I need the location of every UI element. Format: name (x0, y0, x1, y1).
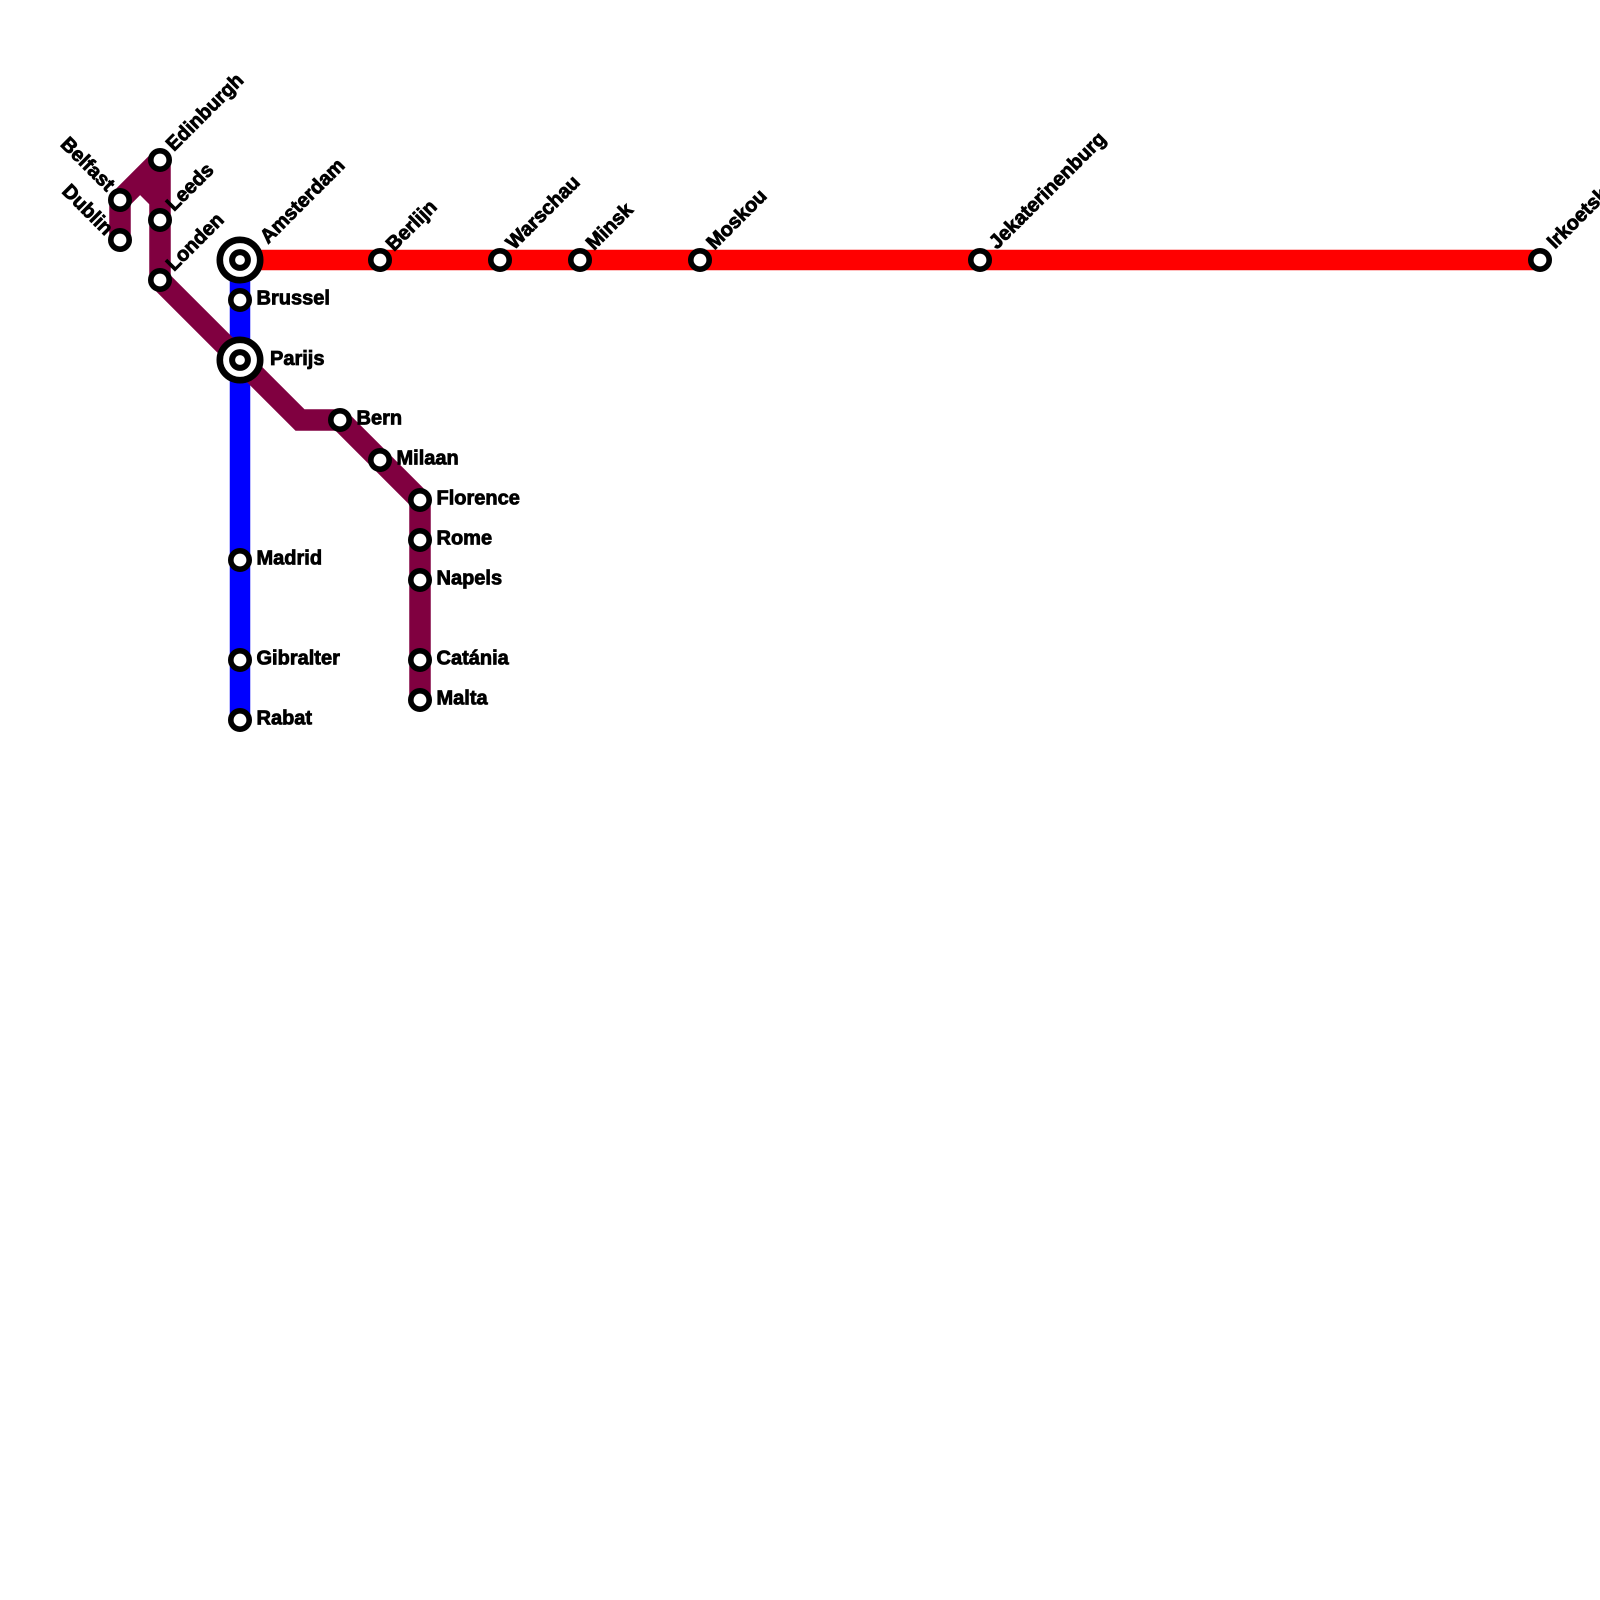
svg-text:Catánia: Catánia (437, 648, 510, 670)
station Londen (151, 271, 169, 289)
svg-text:Napels: Napels (437, 568, 503, 590)
station Amsterdam (interchange) (220, 240, 260, 280)
station Bern (331, 411, 349, 429)
station Moskou (691, 251, 709, 269)
svg-text:Bern: Bern (357, 408, 403, 430)
wire: red line Amsterdam-Irkoetsk (240, 250, 1540, 271)
wire: maroon line Edinburgh-Leeds-Londen-Parijs-Bern-Milaan-Florence-Malta (160, 160, 420, 700)
svg-text:Rome: Rome (437, 528, 493, 550)
station Dublin (111, 231, 129, 249)
station Gibralter (231, 651, 249, 669)
station Edinburgh (151, 151, 169, 169)
station Florence (411, 491, 429, 509)
svg-text:Malta: Malta (437, 688, 489, 710)
station Warschau (491, 251, 509, 269)
svg-text:Milaan: Milaan (397, 448, 459, 470)
station Jekaterinenburg (971, 251, 989, 269)
svg-text:Parijs: Parijs (270, 348, 324, 370)
station Madrid (231, 551, 249, 569)
station Rome (411, 531, 429, 549)
svg-text:Gibralter: Gibralter (257, 648, 341, 670)
svg-text:Madrid: Madrid (257, 548, 323, 570)
station Milaan (371, 451, 389, 469)
station Catánia (411, 651, 429, 669)
svg-text:Brussel: Brussel (257, 288, 330, 310)
station Brussel (231, 291, 249, 309)
station Leeds (151, 211, 169, 229)
junction notch patch at Edinburgh (140, 182, 156, 208)
svg-text:Rabat: Rabat (257, 708, 313, 730)
svg-text:Florence: Florence (437, 488, 520, 510)
station Rabat (231, 711, 249, 729)
station Irkoetsk (1531, 251, 1549, 269)
station Minsk (571, 251, 589, 269)
station Belfast (111, 191, 129, 209)
station Berlijn (371, 251, 389, 269)
station Parijs (interchange) (220, 340, 260, 380)
station Malta (411, 691, 429, 709)
wire: blue line Amsterdam-Rabat (230, 260, 251, 720)
station Napels (411, 571, 429, 589)
wire: maroon line Dublin-Belfast-Edinburgh (120, 160, 160, 240)
